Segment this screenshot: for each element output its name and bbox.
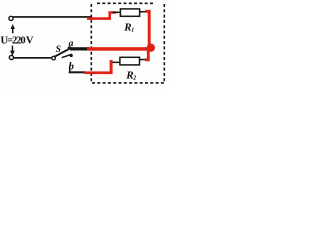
svg-text:R: R [123,21,131,33]
terminal bottom-left [9,55,13,59]
resistor R2 [120,57,140,65]
wire top (black, from terminal to dashed box) [13,16,92,18]
wire b vertical drop [69,66,71,73]
terminal top-left [9,16,13,20]
svg-text:U=220 V: U=220 V [1,36,34,47]
wire red: R2 right up to node [145,48,148,60]
wire bottom (black, terminal to switch pivot) [14,57,53,59]
wire red: contact b to R2 riser [85,71,113,74]
node a dot [68,46,71,49]
switch S pivot [52,56,56,60]
node b dot [70,54,73,57]
wire red: top feed into R1 [87,13,116,19]
switch blade [55,50,68,57]
wire red: R1 right down to node [145,11,149,46]
contact b tick [62,54,71,57]
resistor R1 lead left [113,12,121,14]
wire b horizontal (black part) [69,71,86,73]
wire a (black part) [70,47,90,50]
wire red: node to contact a [87,47,151,51]
resistor R2 lead left [112,62,121,64]
svg-text:S: S [56,45,61,55]
svg-text:2: 2 [132,76,136,82]
dashed box [91,3,164,83]
resistor R1 [120,9,139,16]
voltage arrow down [12,46,14,52]
node junction dot (red) [147,44,155,52]
svg-text:1: 1 [131,27,134,33]
voltage arrow up [11,24,15,29]
wire red: riser up to R2 left [110,60,113,74]
resistor R2 lead right [140,59,146,61]
resistor R1 lead right [139,11,147,13]
